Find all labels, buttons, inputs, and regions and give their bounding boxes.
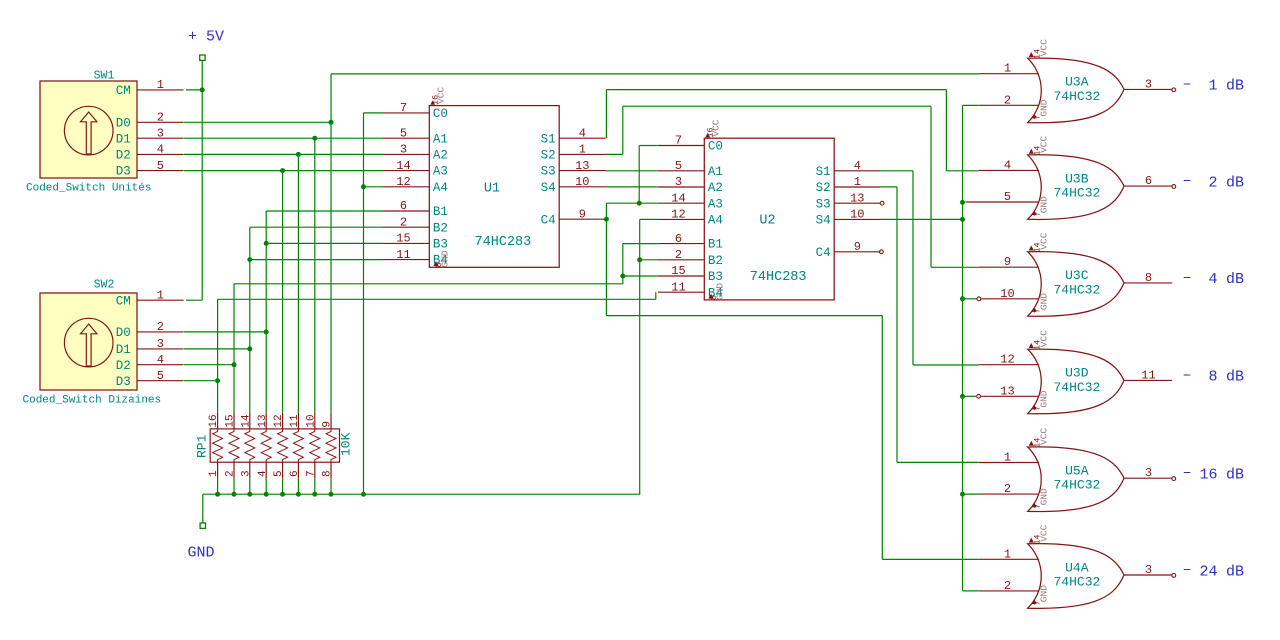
U5A input pin 1: [979, 462, 1039, 464]
svg-text:VCC: VCC: [1038, 330, 1049, 347]
svg-text:1: 1: [1004, 547, 1011, 561]
wire RP1 pin 6 to ground bus: [297, 478, 299, 494]
svg-text:2: 2: [157, 111, 164, 125]
RP1 pin 7 (bottom): [314, 462, 316, 478]
wire RP1 pin 5 to ground bus: [282, 478, 284, 494]
RP1 resistor element 6 zigzag: [293, 429, 303, 462]
junction ground bus / RP1 column: [280, 492, 285, 497]
svg-text:U1: U1: [484, 182, 500, 197]
RP1 pin 3 (bottom): [249, 462, 251, 478]
svg-text:GND: GND: [1039, 196, 1050, 213]
RP1 resistor element 3 zigzag: [245, 429, 255, 462]
svg-text:U5A: U5A: [1065, 464, 1089, 479]
svg-text:C4: C4: [541, 213, 556, 227]
svg-text:U3C: U3C: [1065, 268, 1089, 283]
svg-text:S2: S2: [541, 149, 556, 163]
junction SW2 D2 / column2: [232, 362, 237, 367]
svg-text:12: 12: [396, 175, 410, 189]
svg-text:C0: C0: [708, 140, 723, 154]
wire SW2 CM to +5V rail: [186, 299, 202, 301]
svg-text:U2: U2: [759, 214, 775, 229]
U1 pin 11 (B4): [383, 259, 429, 261]
wire U4A input 1 row: [882, 558, 979, 560]
coded switch SW2 body: [40, 293, 137, 390]
RP1 pin 14 (top): [249, 413, 251, 429]
svg-text:–: –: [1183, 367, 1192, 384]
OR gate U3D 74HC32 body: [1028, 349, 1124, 414]
U2 pin 12 (A4): [658, 218, 704, 220]
svg-text:GND: GND: [1039, 390, 1050, 407]
svg-text:4: 4: [157, 143, 164, 157]
wire U1 S4 to U2 A2: [606, 186, 658, 188]
wire U2 C0 stub: [639, 145, 658, 147]
wire U1 S3 to U2 A1: [606, 170, 658, 172]
wire U1 S2 top route: [623, 105, 931, 107]
wire U2 S1 vertical to U3D: [912, 171, 914, 365]
unconnected-pin circle U3B output: [1172, 185, 1176, 189]
svg-text:3: 3: [1145, 563, 1152, 577]
wire U2 S4 vertical bus to gate inputs: [962, 105, 964, 591]
wire SW2 D2 row: [184, 364, 234, 366]
svg-text:VCC: VCC: [1038, 524, 1049, 541]
svg-text:15: 15: [225, 414, 237, 427]
U1 pin 13 (S3): [559, 170, 605, 172]
wire U1 C4 route right: [606, 315, 882, 317]
svg-text:4: 4: [157, 353, 164, 367]
wire U1 S1 vertical: [605, 90, 607, 139]
svg-text:B2: B2: [433, 221, 448, 235]
svg-text:74HC283: 74HC283: [475, 235, 532, 250]
svg-text:D3: D3: [116, 375, 131, 389]
wire RP1 pin 1 to ground bus: [217, 478, 219, 494]
svg-text:1: 1: [1208, 78, 1217, 95]
svg-text:VCC: VCC: [436, 87, 447, 104]
svg-text:1: 1: [854, 175, 861, 189]
wire RP1 pin 8 to ground bus: [330, 478, 332, 494]
wire SW2 D1 row: [184, 348, 250, 350]
svg-text:3: 3: [1145, 466, 1152, 480]
junction U1 A4 / ground vertical: [361, 184, 366, 189]
svg-text:8: 8: [322, 470, 334, 477]
svg-text:–: –: [1183, 561, 1192, 578]
wire U2 S2 to vertical: [880, 186, 897, 188]
U2 pin 4 (S1): [834, 170, 880, 172]
svg-text:6: 6: [400, 199, 407, 213]
svg-text:dB: dB: [1226, 78, 1244, 95]
svg-text:dB: dB: [1226, 271, 1244, 288]
junction SW2 D1 / column3: [247, 346, 252, 351]
adder U1 74HC283 body: [429, 106, 559, 268]
U3D output pin 11: [1124, 379, 1172, 381]
wire RP1 pin 3 to ground bus: [249, 478, 251, 494]
svg-text:CM: CM: [116, 294, 131, 308]
svg-text:2: 2: [400, 215, 407, 229]
svg-text:2: 2: [157, 320, 164, 334]
svg-text:6: 6: [289, 470, 301, 477]
OR gate U4A 74HC32 body: [1028, 544, 1124, 609]
SW2 pin D3: [137, 380, 184, 382]
SW2 arrow: [81, 324, 97, 366]
wire SW1 D3 to U1 A3: [184, 170, 383, 172]
wire U3A input 2 stub: [963, 104, 979, 106]
svg-text:14: 14: [240, 414, 252, 428]
RP1 pin 10 (top): [314, 413, 316, 429]
svg-text:12: 12: [671, 208, 685, 222]
resistor network RP1 body: [210, 429, 339, 462]
U3A output pin 3: [1124, 88, 1172, 90]
junction ground bus / RP1 column: [232, 492, 237, 497]
svg-text:A2: A2: [433, 149, 448, 163]
svg-text:U3D: U3D: [1065, 366, 1089, 381]
junction D0 / column8: [329, 120, 334, 125]
wire U4A input 2 stub: [963, 590, 979, 592]
svg-text:S4: S4: [541, 181, 556, 195]
svg-text:D0: D0: [116, 116, 131, 130]
U3D hidden VCC pin marker: [1029, 343, 1034, 348]
RP1 pin 12 (top): [282, 413, 284, 429]
U2 pin 9 (C4): [834, 251, 880, 253]
SW2 rotor circle: [64, 318, 113, 367]
svg-text:B2: B2: [708, 254, 723, 268]
svg-text:B3: B3: [708, 270, 723, 284]
svg-text:5: 5: [273, 470, 285, 477]
svg-text:3: 3: [240, 470, 252, 477]
svg-text:–: –: [1183, 76, 1192, 93]
U2 pin 7 (C0): [658, 145, 704, 147]
U3D input pin 13: [981, 395, 1039, 397]
svg-text:GND: GND: [1039, 488, 1050, 505]
unconnected-pin circle U3A output: [1172, 88, 1176, 92]
U3D hidden GND pin marker: [1032, 404, 1037, 409]
svg-text:C4: C4: [816, 246, 831, 260]
U2 pin 6 (B1): [658, 243, 704, 245]
RP1 pin 11 (top): [297, 413, 299, 429]
svg-text:B1: B1: [433, 205, 448, 219]
wire SW1 D0 row: [184, 121, 331, 123]
U4A hidden GND pin marker: [1032, 599, 1037, 604]
U3B hidden GND pin marker: [1032, 210, 1037, 215]
svg-text:S1: S1: [541, 132, 556, 146]
wire SW1 CM to +5V rail: [186, 89, 202, 91]
wire ground bus: [203, 493, 640, 495]
svg-text:4: 4: [854, 159, 861, 173]
svg-text:U3A: U3A: [1065, 75, 1089, 90]
svg-text:11: 11: [396, 248, 410, 262]
junction U1 B3 / column4: [264, 241, 269, 246]
svg-text:2: 2: [1004, 579, 1011, 593]
junction D1 / column7: [312, 136, 317, 141]
junction ground bus / RP1 column: [296, 492, 301, 497]
RP1 resistor element 8 zigzag: [326, 429, 336, 462]
U4A input pin 2: [979, 590, 1039, 592]
junction U2 B2 / ground vertical: [637, 257, 642, 262]
svg-text:74HC283: 74HC283: [750, 270, 807, 285]
U3A hidden GND pin marker: [1032, 113, 1037, 118]
RP1 resistor element 2 zigzag: [229, 429, 239, 462]
svg-text:10K: 10K: [339, 432, 354, 456]
RP1 resistor element 5 zigzag: [278, 429, 288, 462]
svg-text:A4: A4: [708, 214, 723, 228]
SW2 pin D0: [137, 331, 184, 333]
SW1 pin D2: [137, 153, 184, 155]
svg-text:S3: S3: [541, 165, 556, 179]
junction U2 S4 / gate bus: [960, 217, 965, 222]
svg-text:13: 13: [850, 191, 864, 205]
svg-text:B1: B1: [708, 238, 723, 252]
U2 pin 1 (S2): [834, 186, 880, 188]
wire U1 B4 row: [250, 259, 383, 261]
svg-text:12: 12: [273, 414, 285, 427]
svg-text:C0: C0: [433, 107, 448, 121]
svg-text:7: 7: [305, 470, 317, 477]
U1 pin 7 (C0): [383, 112, 429, 114]
power +5V symbol square pad: [200, 55, 205, 60]
svg-text:74HC32: 74HC32: [1054, 478, 1101, 493]
U4A hidden VCC pin marker: [1029, 538, 1034, 543]
OR gate U3A 74HC32 body: [1028, 58, 1124, 123]
svg-text:5: 5: [400, 126, 407, 140]
svg-text:D1: D1: [116, 343, 131, 357]
wire SW2 D0 row: [184, 331, 266, 333]
svg-text:dB: dB: [1226, 563, 1244, 580]
U1 pin 14 (A3): [383, 170, 429, 172]
svg-text:74HC32: 74HC32: [1054, 380, 1101, 395]
svg-text:dB: dB: [1226, 369, 1244, 386]
wire U1 C4 vertical: [605, 203, 607, 315]
junction U1 C4: [604, 217, 609, 222]
svg-text:VCC: VCC: [1038, 232, 1049, 249]
wire U1 B3 row: [266, 242, 383, 244]
svg-text:8: 8: [1208, 369, 1217, 386]
svg-text:3: 3: [157, 337, 164, 351]
U5A input pin 2: [979, 493, 1039, 495]
RP1 pin 5 (bottom): [282, 462, 284, 478]
wire U2 B3 stub: [623, 275, 658, 277]
U3D input pin 12: [979, 364, 1039, 366]
unconnected-pin circle U4A output: [1172, 574, 1176, 578]
svg-text:11: 11: [289, 414, 301, 428]
U1 pin 12 (A4): [383, 186, 429, 188]
svg-text:74HC32: 74HC32: [1054, 574, 1101, 589]
U3B input pin 4: [979, 169, 1039, 171]
U1 pin 10 (S4): [559, 186, 605, 188]
svg-text:74HC32: 74HC32: [1054, 282, 1101, 297]
svg-text:12: 12: [1000, 353, 1014, 367]
svg-text:D1: D1: [116, 132, 131, 146]
wire U2 B1/B3 vertical: [622, 244, 624, 284]
wire +5V rail vertical: [201, 60, 203, 300]
wire column3 vertical: [249, 227, 251, 413]
junction U5A input2: [960, 492, 965, 497]
U1 pin 4 (S1): [559, 137, 605, 139]
junction SW2 D3 / column1: [215, 378, 220, 383]
SW1 arrow: [81, 112, 97, 154]
svg-text:4: 4: [1004, 158, 1011, 172]
U1 pin 3 (A2): [383, 153, 429, 155]
svg-text:9: 9: [854, 240, 861, 254]
wire SW1 D1 to U1 A1: [184, 137, 383, 139]
svg-text:A2: A2: [708, 181, 723, 195]
svg-text:6: 6: [675, 232, 682, 246]
svg-text:4: 4: [1208, 271, 1217, 288]
junction D2 / column6: [296, 152, 301, 157]
U3A input pin 1: [979, 73, 1039, 75]
svg-text:13: 13: [257, 414, 269, 427]
RP1 pin 9 (top): [330, 413, 332, 429]
svg-text:5: 5: [157, 159, 164, 173]
U1 pin 9 (C4): [559, 218, 605, 220]
svg-text:–: –: [1183, 269, 1192, 286]
RP1 pin 6 (bottom): [297, 462, 299, 478]
svg-text:16: 16: [208, 414, 220, 427]
svg-text:VCC: VCC: [711, 119, 722, 136]
wire U2 B1 stub: [623, 243, 658, 245]
RP1 pin 4 (bottom): [265, 462, 267, 478]
svg-text:A4: A4: [433, 181, 448, 195]
junction U3D input2: [960, 394, 965, 399]
svg-text:10: 10: [575, 175, 589, 189]
svg-text:5: 5: [675, 159, 682, 173]
svg-text:2: 2: [1208, 174, 1217, 191]
junction U2 B3 / column2 vertical: [620, 274, 625, 279]
svg-text:4: 4: [579, 126, 586, 140]
wire column2 vertical: [233, 284, 235, 413]
wire column4 vertical: [265, 211, 267, 413]
svg-text:GND: GND: [188, 545, 215, 562]
wire U3D input 2 stub: [963, 395, 977, 397]
wire U1 S2 vertical to U3C: [930, 106, 932, 267]
svg-text:D2: D2: [116, 149, 131, 163]
unconnected-pin circle U5A output: [1172, 477, 1176, 481]
junction U1 B4 / column3: [247, 257, 252, 262]
svg-text:GND: GND: [1039, 99, 1050, 116]
svg-text:13: 13: [1000, 384, 1014, 398]
SW1 rotor circle: [64, 106, 113, 155]
svg-text:D2: D2: [116, 359, 131, 373]
SW2 pin CM: [137, 299, 184, 301]
wire ground stub: [202, 494, 204, 523]
junction D3 / column5: [280, 168, 285, 173]
wire U2 A4 stub: [640, 218, 658, 220]
junction ground bus / RP1 column: [312, 492, 317, 497]
U1 hidden VCC pin marker: [430, 100, 435, 105]
svg-text:11: 11: [1141, 368, 1155, 382]
RP1 pin 15 (top): [233, 413, 235, 429]
wire column6 vertical: [297, 154, 299, 412]
svg-text:GND: GND: [440, 250, 451, 267]
junction ground bus / RP1 column: [247, 492, 252, 497]
wire SW1 D2 to U1 A2: [184, 153, 383, 155]
svg-text:GND: GND: [715, 283, 726, 300]
svg-text:14: 14: [396, 159, 410, 173]
svg-text:2: 2: [225, 470, 237, 477]
U1 pin 1 (S2): [559, 153, 605, 155]
U4A input pin 1: [979, 558, 1039, 560]
RP1 pin 13 (top): [265, 413, 267, 429]
unconnected-pin circle U3C input pin 10: [977, 297, 981, 301]
U2 pin 15 (B3): [658, 275, 704, 277]
U2 pin 13 (S3): [834, 202, 880, 204]
svg-text:2: 2: [675, 248, 682, 262]
U3C hidden VCC pin marker: [1029, 246, 1034, 251]
svg-text:D3: D3: [116, 165, 131, 179]
svg-text:A3: A3: [708, 197, 723, 211]
svg-text:VCC: VCC: [1038, 428, 1049, 445]
U3B hidden VCC pin marker: [1029, 149, 1034, 154]
svg-text:GND: GND: [1039, 585, 1050, 602]
wire column7 vertical: [314, 138, 316, 413]
svg-text:10: 10: [850, 208, 864, 222]
wire U1 S2 vertical: [622, 106, 624, 154]
svg-text:74HC32: 74HC32: [1054, 89, 1101, 104]
svg-text:A3: A3: [433, 165, 448, 179]
svg-text:15: 15: [671, 264, 685, 278]
wire U2 B4 jog: [655, 292, 657, 299]
wire U1 B2 row: [250, 226, 383, 228]
U3B input pin 5: [966, 201, 1039, 203]
svg-text:1: 1: [208, 470, 220, 477]
svg-text:U3B: U3B: [1065, 171, 1089, 186]
svg-text:11: 11: [671, 280, 685, 294]
U1 pin 6 (B1): [383, 210, 429, 212]
wire U1 C4 vertical to U4A: [881, 316, 883, 560]
U3A hidden VCC pin marker: [1029, 52, 1034, 57]
wire U1 A4 stub: [364, 186, 384, 188]
U5A output pin 3: [1124, 477, 1172, 479]
svg-text:2: 2: [1004, 93, 1011, 107]
U3B output pin 6: [1124, 185, 1172, 187]
svg-text:A1: A1: [708, 165, 723, 179]
svg-text:9: 9: [579, 207, 586, 221]
wire RP1 pin 7 to ground bus: [314, 478, 316, 494]
svg-text:–: –: [1183, 465, 1192, 482]
junction ground bus / RP1 column: [264, 492, 269, 497]
junction SW2 D0 / column4: [264, 329, 269, 334]
svg-text:S2: S2: [816, 181, 831, 195]
wire column1 route to U2 B4: [218, 298, 656, 300]
U2 pin 10 (S4): [834, 218, 880, 220]
svg-text:3: 3: [675, 175, 682, 189]
svg-text:10: 10: [1000, 287, 1014, 301]
svg-text:9: 9: [322, 421, 334, 428]
wire column1 vertical: [217, 299, 219, 412]
wire U5A input 2 stub: [963, 493, 979, 495]
svg-text:S4: S4: [816, 214, 831, 228]
svg-text:14: 14: [671, 191, 685, 205]
svg-text:24: 24: [1199, 563, 1217, 580]
U2 pin 2 (B2): [658, 259, 704, 261]
U2 pin 5 (A1): [658, 170, 704, 172]
U2 pin 11 (B4): [658, 291, 704, 293]
junction ground bus / RP1 column: [329, 492, 334, 497]
svg-text:VCC: VCC: [1038, 39, 1049, 56]
svg-text:RP1: RP1: [195, 434, 210, 458]
U1 pin 15 (B3): [383, 242, 429, 244]
wire column5 vertical: [282, 171, 284, 413]
U3A input pin 2: [979, 104, 1039, 106]
svg-text:2: 2: [1004, 482, 1011, 496]
unconnected-pin circle U2 pin S3: [880, 201, 884, 205]
svg-text:1: 1: [157, 288, 164, 302]
svg-text:5: 5: [157, 369, 164, 383]
wire U2 C0 vertical: [638, 146, 640, 204]
wire U1 S1 top route: [606, 89, 946, 91]
RP1 pin 8 (bottom): [330, 462, 332, 478]
svg-text:6: 6: [1145, 174, 1152, 188]
RP1 pin 16 (top): [217, 413, 219, 429]
RP1 pin 1 (bottom): [217, 462, 219, 478]
U2 hidden VCC pin marker: [705, 133, 710, 138]
